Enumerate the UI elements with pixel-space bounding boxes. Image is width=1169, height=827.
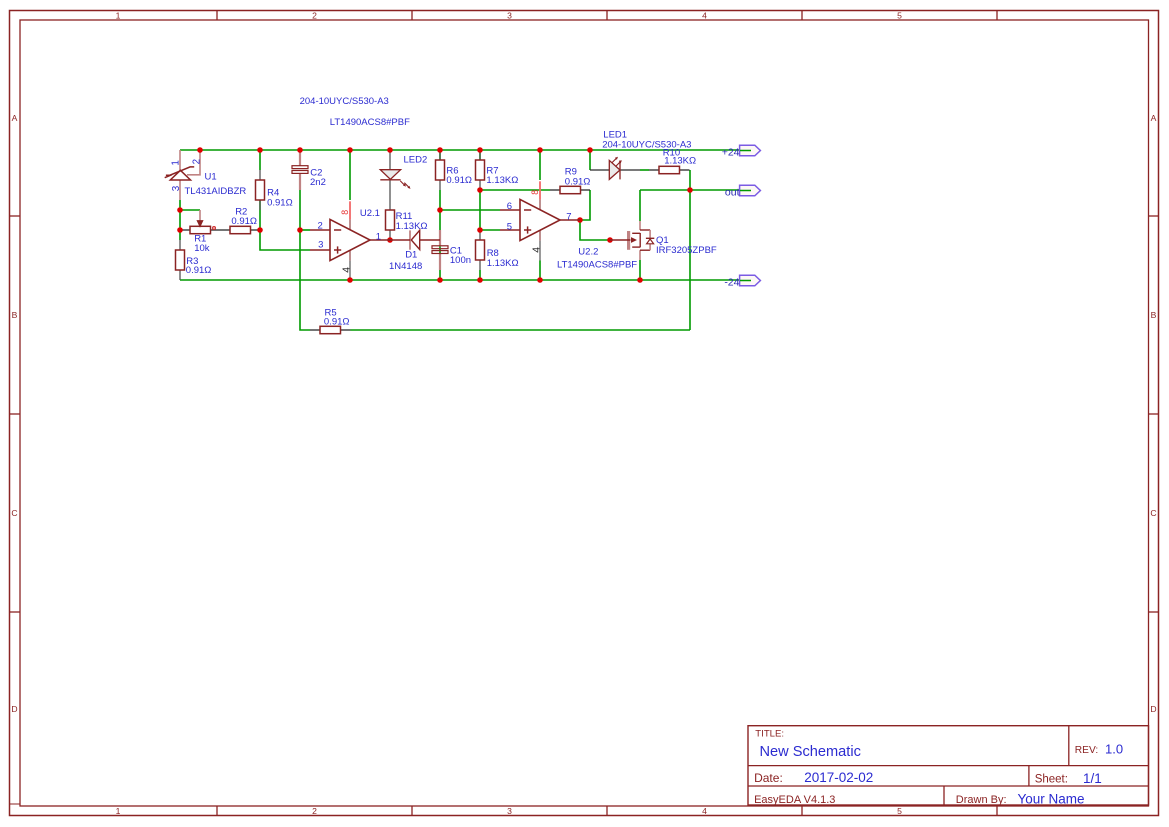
wire R5 to out column [351, 329, 691, 331]
svg-text:0.91Ω: 0.91Ω [267, 197, 293, 208]
pin LED2 anode [389, 150, 391, 170]
pin R9.2 [581, 189, 591, 191]
svg-text:3: 3 [171, 185, 182, 191]
wire R4 bottom to node [259, 200, 261, 230]
svg-text:4: 4 [531, 247, 542, 253]
pin R8.2 [479, 260, 481, 270]
svg-text:1.13KΩ: 1.13KΩ [486, 175, 518, 186]
svg-text:2: 2 [191, 159, 202, 164]
wire U2.2 V+ column [539, 150, 541, 180]
junction (610,240) [607, 237, 613, 243]
pin R2.1 [220, 229, 230, 231]
pin Q1 drain [639, 221, 641, 230]
svg-text:100n: 100n [450, 255, 471, 266]
junction (480,280) [477, 277, 483, 283]
resistor R3 [176, 250, 185, 270]
pin C2.1 [299, 151, 301, 166]
svg-text:4: 4 [702, 10, 707, 20]
wire LED1 anode drop [589, 150, 591, 170]
junction (180,230) [177, 227, 183, 233]
svg-text:TITLE:: TITLE: [755, 729, 784, 740]
wire node to pin3 row [260, 230, 310, 250]
svg-text:0.91Ω: 0.91Ω [324, 317, 350, 328]
pin R7.2 [479, 180, 481, 190]
svg-text:0.91Ω: 0.91Ω [446, 175, 472, 186]
pin U1.1 [179, 150, 181, 171]
svg-text:4: 4 [702, 806, 707, 816]
wire LED1 to R10 [640, 169, 649, 171]
wire C1 to rail [439, 270, 441, 281]
junction (590,150) [587, 147, 593, 153]
svg-text:LED2: LED2 [404, 154, 428, 165]
svg-text:2: 2 [312, 10, 317, 20]
pin C1.2 [439, 253, 441, 270]
LED2 [380, 170, 410, 189]
pin R11.2 [389, 230, 391, 240]
junction (350,280) [347, 277, 353, 283]
wire R6 to C1 column [439, 190, 441, 231]
svg-text:4: 4 [341, 267, 352, 273]
svg-text:7: 7 [566, 211, 571, 222]
wire C2 bottom to node [299, 190, 301, 230]
junction (480,230) [477, 227, 483, 233]
svg-text:1: 1 [376, 232, 381, 243]
wire R9 to pin7 node [580, 190, 590, 220]
junction (690,190) [687, 187, 693, 193]
LED1 [609, 157, 622, 180]
junction (480,150) [477, 147, 483, 153]
svg-text:A: A [1151, 113, 1157, 123]
svg-text:U1: U1 [205, 172, 217, 183]
wire R7 bottom to R8 [479, 190, 481, 230]
svg-text:C: C [1150, 508, 1156, 518]
resistor R10 [659, 166, 680, 173]
pin R10.1 [649, 169, 659, 171]
svg-text:5: 5 [897, 10, 902, 20]
svg-text:2n2: 2n2 [310, 177, 326, 188]
svg-text:1: 1 [171, 160, 182, 165]
junction (260,150) [257, 147, 263, 153]
svg-text:1: 1 [116, 10, 121, 20]
junction (480,190) [477, 187, 483, 193]
svg-text:D1: D1 [405, 250, 417, 261]
svg-text:LT1490ACS8#PBF: LT1490ACS8#PBF [330, 117, 410, 128]
svg-text:3: 3 [507, 10, 512, 20]
pin R4.2 [259, 200, 261, 210]
svg-text:LT1490ACS8#PBF: LT1490ACS8#PBF [557, 260, 637, 271]
pin R1.3 [211, 229, 221, 231]
pin Q1 source [639, 250, 641, 260]
svg-text:out: out [725, 187, 740, 199]
junction (440,210) [437, 207, 443, 213]
svg-text:1N4148: 1N4148 [389, 261, 422, 272]
capacitor C1 [432, 246, 448, 254]
pin U1.3 [179, 180, 181, 200]
op-amp U2.2 [500, 199, 580, 240]
svg-text:Your Name: Your Name [1018, 791, 1085, 806]
svg-text:8: 8 [340, 210, 350, 215]
svg-text:2: 2 [318, 220, 323, 231]
pin R10.2 [679, 169, 690, 171]
pin U2.2 pin8 V+ [539, 181, 541, 209]
pin R5.2 [341, 329, 351, 331]
wire +24 rail [180, 149, 750, 151]
wire U2.1 V+ column [349, 150, 351, 200]
resistor R4 [256, 180, 265, 200]
svg-text:1/1: 1/1 [1083, 771, 1102, 786]
junction (390,240) [387, 237, 393, 243]
svg-text:1.13KΩ: 1.13KΩ [664, 155, 696, 166]
junction (640,280) [637, 277, 643, 283]
svg-text:Sheet:: Sheet: [1035, 774, 1068, 786]
svg-text:EasyEDA V4.1.3: EasyEDA V4.1.3 [754, 794, 835, 806]
svg-text:+24: +24 [722, 147, 740, 159]
svg-text:Date:: Date: [754, 771, 783, 785]
wire -24 rail [180, 279, 750, 281]
svg-text:0.91Ω: 0.91Ω [231, 216, 257, 227]
pin R6.2 [439, 180, 441, 190]
wire pin6 row [440, 209, 500, 211]
port +24 [722, 145, 761, 158]
svg-text:204-10UYC/S530-A3: 204-10UYC/S530-A3 [300, 96, 389, 107]
wire R6 top [439, 150, 441, 160]
wire left column U1 pin3 to R3 [179, 200, 181, 240]
resistor R5 [320, 326, 341, 333]
svg-text:6: 6 [507, 201, 512, 212]
svg-text:0.91Ω: 0.91Ω [186, 265, 212, 276]
svg-text:B: B [12, 310, 18, 320]
svg-text:U2.2: U2.2 [578, 247, 598, 258]
svg-text:5: 5 [507, 221, 512, 232]
svg-text:D: D [1150, 704, 1156, 714]
junction (390,150) [387, 147, 393, 153]
wire U2.2 V- to rail [539, 261, 541, 281]
junction (300,230) [297, 227, 303, 233]
pin U2.1 pin4 [349, 250, 351, 280]
pin R3.2 [179, 270, 181, 280]
svg-text:3: 3 [318, 239, 323, 250]
op-amp U2.1 [310, 219, 390, 260]
resistor R2 [230, 226, 251, 233]
port -24 [724, 275, 760, 288]
junction (180,210) [177, 207, 183, 213]
variable resistor R1 body [190, 210, 215, 234]
pin R8.1 [479, 230, 481, 240]
wire feedback down to R5 [300, 230, 310, 330]
capacitor C2 [292, 166, 308, 174]
wire pin7 to gate [580, 220, 610, 240]
svg-text:-24: -24 [724, 277, 739, 289]
wire C1 gap [439, 246, 441, 253]
junction (580,220) [577, 217, 583, 223]
pin R7.1 [479, 150, 481, 160]
svg-text:IRF3205ZPBF: IRF3205ZPBF [656, 245, 717, 256]
wire R8 bottom [479, 270, 481, 280]
diode D1 [390, 230, 440, 249]
wire wiper tap [180, 209, 200, 211]
wire Q1 source to rail [639, 260, 641, 280]
svg-text:2017-02-02: 2017-02-02 [804, 770, 873, 785]
wire node to pin2 [300, 229, 310, 231]
pin U2.2 pin4 [539, 230, 541, 260]
wire R7 top [479, 150, 481, 160]
svg-text:New Schematic: New Schematic [760, 744, 861, 760]
shunt regulator U1 [165, 167, 195, 180]
junction (260,230) [257, 227, 263, 233]
svg-text:1.0: 1.0 [1105, 742, 1123, 757]
pin LED1 anode [590, 169, 609, 171]
svg-text:8: 8 [530, 190, 540, 195]
resistor R9 [560, 186, 581, 193]
pin R2.2 [250, 229, 260, 231]
svg-text:Drawn By:: Drawn By: [956, 794, 1007, 806]
svg-text:B: B [1151, 310, 1157, 320]
wire R4 top [259, 150, 261, 170]
svg-text:3: 3 [507, 806, 512, 816]
junction (540,280) [537, 277, 543, 283]
svg-text:1.13KΩ: 1.13KΩ [396, 221, 428, 232]
svg-text:204-10UYC/S530-A3: 204-10UYC/S530-A3 [602, 140, 691, 151]
pin R1.1 [180, 229, 190, 231]
wire out column vertical [689, 170, 691, 330]
svg-text:TL431AIDBZR: TL431AIDBZR [185, 186, 247, 197]
svg-text:1: 1 [116, 806, 121, 816]
junction (350,150) [347, 147, 353, 153]
pin R9.1 [550, 189, 560, 191]
port out [725, 185, 761, 198]
pin LED2 cathode / R11.1 [389, 180, 391, 210]
svg-text:5: 5 [897, 806, 902, 816]
pin U2.1 pin8 V+ [349, 201, 351, 229]
svg-text:0.91Ω: 0.91Ω [565, 176, 591, 187]
junction (440,280) [437, 277, 443, 283]
pin U1.2 [187, 150, 200, 175]
mosfet Q1 [610, 230, 654, 250]
svg-text:C: C [11, 508, 17, 518]
svg-text:2: 2 [312, 806, 317, 816]
pin R6.1 [439, 150, 441, 160]
junction (300,150) [297, 147, 303, 153]
wire out net to port [690, 189, 750, 191]
junction (200,150) [197, 147, 203, 153]
pin R5.1 [310, 329, 320, 331]
svg-text:D: D [11, 704, 17, 714]
pin LED1 cathode [620, 169, 640, 171]
wire Q1 drain up [639, 190, 641, 221]
svg-text:A: A [12, 113, 18, 123]
junction (440,150) [437, 147, 443, 153]
resistor R6 [436, 160, 445, 180]
svg-text:1.13KΩ: 1.13KΩ [487, 258, 519, 269]
wire Q1 drain to out node [640, 189, 690, 191]
pin C2.2 [299, 173, 301, 190]
resistor R11 [386, 210, 395, 230]
svg-text:10k: 10k [194, 243, 210, 254]
svg-text:REV:: REV: [1075, 745, 1098, 756]
junction (540,150) [537, 147, 543, 153]
pin C1.1 [439, 230, 441, 246]
wire R7 to R9 row [480, 189, 550, 191]
pin R3.1 [179, 240, 181, 250]
svg-text:U2.1: U2.1 [360, 208, 380, 219]
resistor R7 [476, 160, 485, 180]
wire pin5 row [480, 229, 500, 231]
resistor R8 [476, 240, 485, 260]
pin R4.1 [259, 170, 261, 180]
